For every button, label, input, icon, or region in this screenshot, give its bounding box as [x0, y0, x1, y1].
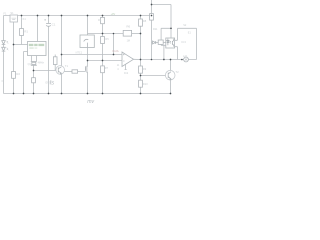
junction (33.5,93.5) — [33, 93, 35, 95]
sensor box — [80, 35, 94, 48]
wire T2 collector — [170, 60, 172, 71]
wire base line to T1 — [34, 70, 57, 72]
resistor R9 — [139, 66, 143, 73]
svg-text:R2: R2 — [16, 72, 20, 76]
wire R1 drop from border — [21, 16, 23, 45]
svg-text:Q1: Q1 — [28, 63, 32, 66]
junction (140.5,15.5) — [140, 15, 142, 17]
resistor R4 — [101, 17, 105, 23]
junction (61.5,93.5) — [61, 93, 63, 95]
junction (102.5,93.5) — [102, 93, 104, 95]
wire T2a collector — [87, 61, 89, 66]
wire IC gnd stub — [24, 52, 28, 94]
wire sensor drop from border — [87, 16, 89, 36]
junction (48.5,15.5) — [48, 15, 50, 17]
capacitor C1 — [44, 19, 51, 26]
LED chain diode — [153, 41, 156, 44]
junction (37.5,15.5) — [37, 15, 39, 17]
wire top border rail — [4, 15, 152, 17]
wire IC top pin — [37, 16, 39, 42]
junction (151.5,15.5) — [151, 15, 153, 17]
junction (140.5,75.5) — [140, 75, 142, 77]
junction (113.5,33.5) — [113, 33, 115, 35]
junction (151.5,59.5) — [151, 59, 153, 61]
junction (87.5,93.5) — [87, 93, 89, 95]
resistor R6 — [123, 30, 131, 36]
wire sense line y33 — [88, 33, 124, 35]
wire horizontal to IC pin — [14, 44, 28, 46]
svg-text:S2: S2 — [183, 24, 187, 27]
svg-text:IC2: IC2 — [124, 71, 129, 75]
svg-text:11: 11 — [117, 64, 120, 67]
resistor R10 — [139, 80, 143, 87]
svg-text:F1: F1 — [3, 11, 7, 15]
svg-text:R10: R10 — [143, 82, 148, 86]
junction (170.5,59.5) — [170, 59, 172, 61]
wire T1 right to resistor — [64, 71, 72, 73]
junction (102.5,15.5) — [102, 15, 104, 17]
wire from S1 bottom pin down — [13, 22, 15, 94]
resistor R7 — [101, 66, 105, 73]
junction (181.9,59.5) — [181, 59, 183, 61]
wire T2 emitter — [170, 80, 172, 94]
junction (170.5,93.5) — [170, 93, 172, 95]
wire bottom rail — [4, 93, 171, 95]
junction (13.5,93.5) — [13, 93, 15, 95]
junction (61.5,15.5) — [61, 15, 63, 17]
wire x62 drop from border — [61, 16, 63, 66]
svg-text:R11: R11 — [153, 28, 158, 31]
transistor T2 — [165, 70, 175, 80]
junction (113.5,54.5) — [113, 54, 115, 56]
lamp LA1 — [184, 57, 189, 62]
junction (61.5,54.5) — [61, 54, 63, 56]
svg-text:R6: R6 — [126, 25, 130, 29]
junction (48.5,93.5) — [48, 93, 50, 95]
svg-text:IC2A: IC2A — [112, 49, 118, 53]
wire opto cathode stub — [161, 45, 166, 59]
IC1 value text band (green) — [29, 44, 44, 49]
junction (87.5,15.5) — [87, 15, 89, 17]
junction (140.5,93.5) — [140, 93, 142, 95]
svg-text:mv: mv — [87, 99, 94, 104]
resistor R5 — [101, 37, 105, 44]
junction (171,28.3) — [170, 27, 172, 29]
junction (163.9,59.5) — [163, 59, 165, 61]
junction (102.5,60.5) — [102, 60, 104, 62]
wire resistor top tie — [161, 28, 171, 45]
wire node down through R — [33, 71, 35, 94]
junction (102.5,33.5) — [102, 33, 104, 35]
svg-text:NTC1: NTC1 — [76, 52, 83, 55]
svg-text:T2: T2 — [175, 70, 179, 74]
IC1 box — [28, 42, 47, 56]
resistor on x151 — [150, 14, 154, 21]
wire minus-input rail — [88, 60, 123, 62]
svg-text:1M: 1M — [127, 39, 130, 42]
optocoupler IC3 — [166, 38, 175, 48]
junction (21.5,15.5) — [21, 15, 23, 17]
diode D1 on left rail — [2, 41, 9, 45]
wire op-amp V- pin — [125, 64, 127, 69]
transistor T2a — [85, 66, 87, 73]
svg-text:C1: C1 — [52, 23, 56, 27]
wire resistor to T2a gate — [78, 67, 86, 71]
wire T2 base line — [141, 75, 166, 77]
wire output line — [134, 58, 141, 60]
resistor R1 — [20, 29, 24, 36]
wire T1 emitter down — [61, 73, 63, 93]
resistor below node — [32, 78, 36, 83]
resistor LED chain — [158, 40, 163, 44]
svg-text:R4: R4 — [98, 18, 102, 22]
svg-text:T1: T1 — [65, 64, 69, 68]
resistor base R — [72, 70, 78, 73]
wire opto collector to right — [175, 28, 197, 59]
divider chain x103 — [102, 16, 104, 94]
wire resonator to node — [33, 65, 35, 70]
wire left rail — [3, 16, 5, 94]
transistor T1 — [56, 66, 65, 75]
svg-text:+9V: +9V — [111, 13, 116, 16]
junction (33.5,70.5) — [33, 70, 35, 72]
junction (151.5,4.5) — [151, 4, 153, 6]
diode D2 on left rail — [2, 47, 9, 51]
svg-text:R5: R5 — [105, 37, 109, 41]
resistor R2 on x13 line — [12, 72, 16, 79]
svg-text:4: 4 — [117, 68, 119, 71]
wire top-right feed y4.5 — [152, 5, 172, 39]
svg-text:R8: R8 — [143, 19, 147, 23]
svg-text:ls: ls — [50, 81, 54, 87]
svg-text:IC3: IC3 — [181, 40, 186, 44]
svg-text:R7: R7 — [105, 66, 109, 70]
svg-text:4MHz: 4MHz — [38, 61, 45, 64]
wire plus-input rail — [62, 54, 123, 56]
svg-text:R9: R9 — [143, 67, 147, 71]
svg-text:S1: S1 — [10, 11, 14, 15]
svg-text:K1: K1 — [23, 17, 27, 21]
junction (140.5,59.5) — [140, 59, 142, 61]
resistor R8 — [139, 19, 143, 26]
IC bottom pins to resonator — [32, 56, 37, 62]
junction (13.5,44.5) — [13, 44, 15, 46]
supply block S1 on top border — [10, 15, 18, 22]
wire sensor bottom pin — [87, 48, 89, 61]
junction (87.5,60.5) — [87, 60, 89, 62]
junction (140.5,33.5) — [140, 33, 142, 35]
svg-text:E1: E1 — [188, 32, 192, 35]
svg-text:N: N — [2, 79, 4, 83]
svg-text:LA1: LA1 — [183, 55, 188, 58]
resistor T1 base bias from plus rail — [54, 55, 56, 71]
op-amp IC2 — [122, 52, 134, 67]
wire plus-input vertical — [113, 34, 115, 55]
resonator Q1 — [31, 62, 37, 66]
wire T2a emitter — [87, 73, 89, 94]
svg-text:R1: R1 — [24, 29, 28, 33]
wire opto emitter down — [175, 47, 178, 60]
junction (23.5,93.5) — [23, 93, 25, 95]
wire electrolytic cap line — [48, 16, 50, 94]
chain x151 — [151, 0, 153, 60]
pull-up chain x140 — [140, 16, 142, 94]
